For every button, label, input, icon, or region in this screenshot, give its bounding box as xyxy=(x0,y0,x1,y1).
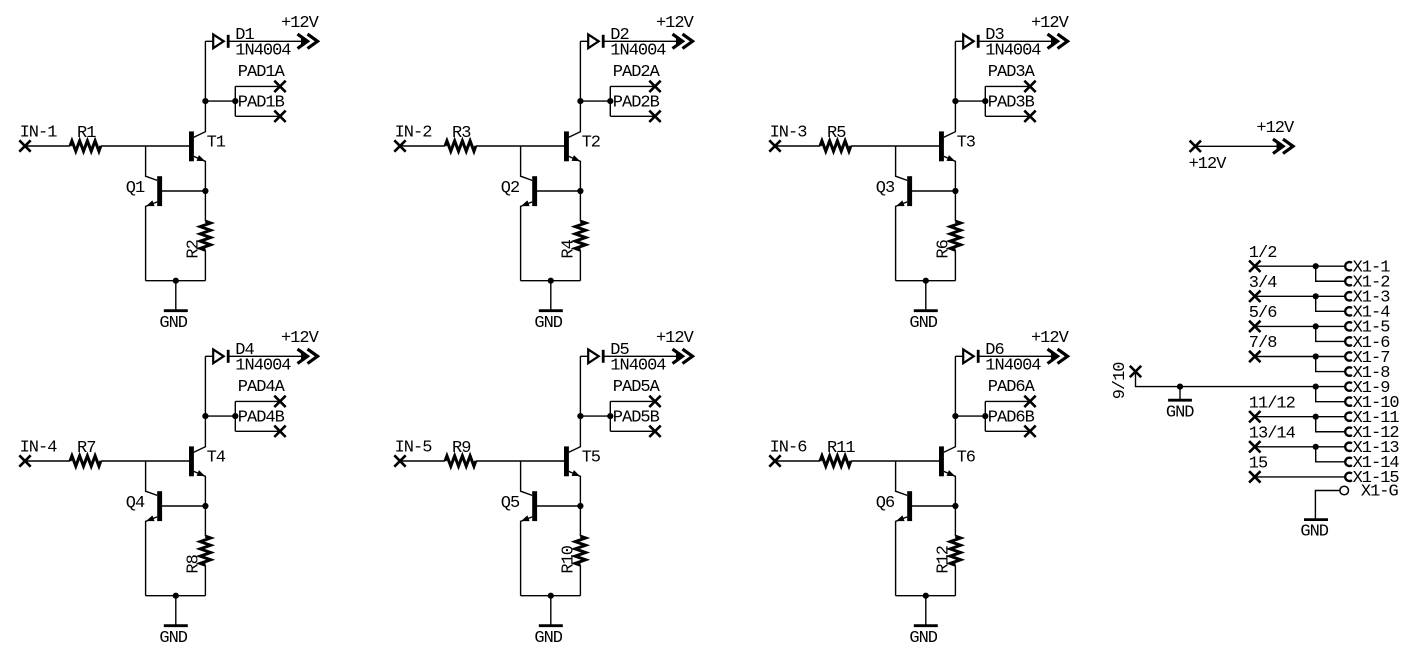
svg-text:5/6: 5/6 xyxy=(1249,304,1277,323)
svg-text:GND: GND xyxy=(909,314,937,333)
svg-text:R8: R8 xyxy=(185,554,204,573)
svg-text:+12V: +12V xyxy=(1189,155,1228,174)
svg-text:R10: R10 xyxy=(560,545,579,573)
svg-text:IN-3: IN-3 xyxy=(770,124,808,143)
svg-text:T2: T2 xyxy=(582,133,600,152)
svg-text:GND: GND xyxy=(1300,522,1328,541)
svg-text:PAD5A: PAD5A xyxy=(613,378,661,397)
svg-text:R3: R3 xyxy=(452,124,471,143)
svg-text:R12: R12 xyxy=(935,546,954,574)
svg-text:13/14: 13/14 xyxy=(1249,424,1296,443)
svg-text:PAD2A: PAD2A xyxy=(613,63,661,82)
svg-text:GND: GND xyxy=(1166,403,1194,422)
svg-text:T3: T3 xyxy=(957,133,976,152)
svg-text:T4: T4 xyxy=(207,448,226,467)
svg-text:1N4004: 1N4004 xyxy=(235,42,291,61)
svg-text:GND: GND xyxy=(534,629,562,648)
svg-text:Q5: Q5 xyxy=(501,494,520,513)
svg-text:T1: T1 xyxy=(207,133,226,152)
svg-text:1N4004: 1N4004 xyxy=(985,42,1041,61)
svg-text:PAD4B: PAD4B xyxy=(238,409,285,428)
svg-text:1/2: 1/2 xyxy=(1249,244,1277,263)
svg-text:IN-4: IN-4 xyxy=(20,439,58,458)
svg-text:+12V: +12V xyxy=(281,14,320,33)
svg-text:Q3: Q3 xyxy=(876,179,895,198)
svg-text:1N4004: 1N4004 xyxy=(235,357,291,376)
svg-text:3/4: 3/4 xyxy=(1249,274,1277,293)
svg-text:IN-2: IN-2 xyxy=(395,124,432,143)
svg-text:Q1: Q1 xyxy=(126,179,145,198)
svg-text:11/12: 11/12 xyxy=(1249,394,1295,413)
svg-text:R1: R1 xyxy=(77,124,96,143)
svg-text:R9: R9 xyxy=(452,439,471,458)
svg-text:Q4: Q4 xyxy=(126,494,145,513)
svg-text:T6: T6 xyxy=(957,448,976,467)
svg-text:Q2: Q2 xyxy=(501,179,519,198)
svg-text:PAD5B: PAD5B xyxy=(613,409,660,428)
svg-text:IN-1: IN-1 xyxy=(20,124,58,143)
svg-text:GND: GND xyxy=(534,314,562,333)
svg-text:+12V: +12V xyxy=(1031,329,1070,348)
svg-text:+12V: +12V xyxy=(1031,14,1070,33)
svg-text:PAD6A: PAD6A xyxy=(988,378,1036,397)
svg-text:R6: R6 xyxy=(935,239,954,258)
svg-text:PAD2B: PAD2B xyxy=(613,94,660,113)
svg-text:GND: GND xyxy=(159,629,187,648)
svg-text:+12V: +12V xyxy=(656,14,695,33)
svg-text:+12V: +12V xyxy=(281,329,320,348)
svg-text:PAD6B: PAD6B xyxy=(988,409,1035,428)
svg-text:R2: R2 xyxy=(185,240,204,258)
svg-text:X1-G: X1-G xyxy=(1361,483,1399,502)
svg-text:+12V: +12V xyxy=(656,329,695,348)
svg-text:7/8: 7/8 xyxy=(1249,334,1277,353)
svg-text:Q6: Q6 xyxy=(876,494,895,513)
svg-text:15: 15 xyxy=(1249,455,1268,474)
svg-text:IN-6: IN-6 xyxy=(770,439,808,458)
svg-text:PAD1B: PAD1B xyxy=(238,94,285,113)
svg-text:R4: R4 xyxy=(560,239,579,258)
svg-text:1N4004: 1N4004 xyxy=(985,357,1041,376)
svg-text:9/10: 9/10 xyxy=(1111,362,1130,400)
svg-text:T5: T5 xyxy=(582,448,601,467)
svg-text:PAD3B: PAD3B xyxy=(988,94,1035,113)
svg-text:R11: R11 xyxy=(827,439,855,458)
svg-text:1N4004: 1N4004 xyxy=(610,42,666,61)
svg-text:R7: R7 xyxy=(77,439,95,458)
svg-text:R5: R5 xyxy=(827,124,846,143)
svg-text:PAD4A: PAD4A xyxy=(238,378,286,397)
svg-text:GND: GND xyxy=(159,314,187,333)
svg-text:GND: GND xyxy=(909,629,937,648)
svg-text:1N4004: 1N4004 xyxy=(610,357,666,376)
svg-text:IN-5: IN-5 xyxy=(395,439,433,458)
svg-text:+12V: +12V xyxy=(1256,119,1295,138)
svg-text:PAD1A: PAD1A xyxy=(238,63,286,82)
svg-text:PAD3A: PAD3A xyxy=(988,63,1036,82)
